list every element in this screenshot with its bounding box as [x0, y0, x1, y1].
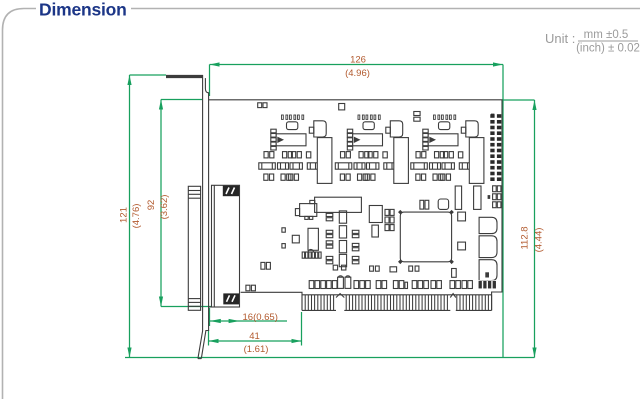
svg-text:(4.96): (4.96) [345, 68, 370, 79]
pin header footprint right edge [490, 114, 501, 181]
pads below ladder [493, 186, 501, 208]
PCI edge connector (gold fingers) [302, 294, 492, 311]
svg-text:16(0.65): 16(0.65) [243, 312, 278, 323]
PCB board outline [209, 100, 502, 311]
small squares right of QFP [458, 212, 466, 250]
bottom extension line [125, 357, 535, 359]
caps column A [326, 213, 333, 263]
IC cluster 2 [335, 115, 408, 183]
pin header row [302, 249, 321, 258]
capacitor C top-mid [339, 104, 345, 110]
tiny caps above pad row [333, 265, 419, 272]
svg-text:(4.76): (4.76) [131, 204, 142, 229]
tall narrow rects top right [455, 186, 481, 209]
capacitor C top-left [258, 103, 262, 108]
capacitor C top-right pair [414, 112, 420, 116]
panel border [3, 9, 37, 400]
caps column B [352, 230, 359, 264]
dim 16 bottom-left [210, 308, 288, 326]
svg-text:(4.44): (4.44) [534, 228, 545, 253]
svg-text:Unit :: Unit : [545, 31, 575, 46]
vertical IC mid [308, 228, 318, 250]
svg-text:121: 121 [119, 207, 130, 223]
dim 126 top [210, 55, 504, 358]
D-sub connector flange [188, 186, 200, 310]
capacitor pair mid-bottom-left [261, 262, 265, 269]
svg-text:(3.62): (3.62) [159, 195, 170, 220]
resistor network column [339, 211, 346, 267]
dim 121 left [119, 75, 167, 358]
svg-text:Dimension: Dimension [39, 0, 127, 20]
svg-text:mm ±0.5: mm ±0.5 [584, 29, 629, 41]
dim 92 left [146, 100, 211, 307]
svg-text:(inch) ± 0.02: (inch) ± 0.02 [576, 43, 640, 55]
on-board DB connector [209, 185, 240, 307]
svg-text:92: 92 [146, 200, 157, 211]
bracket [166, 75, 209, 359]
bottom pad groups [309, 269, 496, 289]
svg-text:112.8: 112.8 [520, 226, 531, 249]
crystal Y1 [295, 200, 316, 219]
capacitor pair near bottom edge left [246, 285, 250, 291]
QFP chip U main [398, 210, 454, 264]
wide IC U mid [315, 197, 362, 212]
small parts mid-left [282, 228, 299, 248]
svg-text:(1.61): (1.61) [244, 344, 269, 355]
electrolytic caps right edge [479, 195, 497, 281]
dim 41 bottom [209, 312, 302, 355]
stacked cap pairs column [385, 209, 394, 230]
medium IC [369, 206, 382, 223]
caps above QFP [420, 199, 449, 209]
IC cluster 1 [259, 115, 332, 183]
svg-text:126: 126 [350, 55, 366, 66]
IC cluster 3 [411, 115, 484, 183]
svg-text:41: 41 [249, 331, 260, 342]
dim 112.8 right [502, 100, 545, 358]
